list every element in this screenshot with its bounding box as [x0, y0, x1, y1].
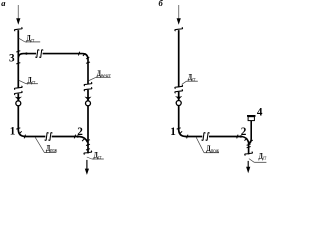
tick on node 1 corner curve (a) [19, 131, 22, 134]
break S mark bottom tail (b) [245, 152, 253, 156]
svg-text:3: 3 [9, 52, 15, 64]
outlet arrow (a) [85, 160, 89, 175]
junction dot node 2 (b) [240, 135, 242, 137]
outlet arrow (b) [246, 161, 250, 173]
tick below node 2 first (a) [86, 144, 90, 145]
flow arrowhead on right riser (a) [85, 97, 91, 101]
label Дпож (a) [35, 137, 57, 154]
svg-text:1: 1 [170, 126, 176, 138]
tick on bottom main after corner (b) [187, 135, 188, 139]
instrument circle on riser (b) [176, 101, 181, 106]
wire: right riser lower (a) [87, 90, 89, 154]
junction dot on top main (a) [25, 52, 27, 54]
tick on node 1 corner curve (b) [179, 131, 182, 134]
label Двент (a) [89, 68, 111, 81]
label Дст upper (b) [182, 72, 198, 85]
wire: riser upper (b) [178, 30, 180, 87]
wire: bottom main right part (a) [52, 137, 88, 143]
svg-text:4: 4 [257, 107, 263, 119]
svg-text:1: 1 [10, 126, 16, 138]
instrument circle on left riser (a) [16, 101, 21, 106]
tick below node 2 first (b) [247, 144, 251, 145]
wire: riser lower with node1 corner (b) [179, 92, 186, 137]
label Дст upper (a) [19, 32, 41, 43]
tick below node 2 second (a) [86, 149, 90, 150]
tick on right riser at node 2 (a) [86, 140, 90, 141]
wire: left riser upper (a) [17, 30, 19, 88]
wire: bottom main right part with node2 elbow (b) [209, 137, 249, 155]
supply arrow (b) [177, 5, 181, 25]
svg-text:2: 2 [241, 126, 247, 138]
instrument circle on right riser (a) [86, 101, 91, 106]
tick on node 2 elbow curve (a) [82, 139, 85, 142]
break S pair on riser (b) [175, 85, 183, 93]
break S mark (a inlet) [14, 27, 22, 31]
junction dot node 2 (a) [77, 135, 79, 137]
flow arrowhead on riser (b) [176, 96, 182, 100]
tick below node 3 [16, 63, 20, 64]
tick on node 2 elbow curve (b) [245, 138, 248, 141]
svg-text:а: а [1, 0, 6, 8]
tick on corner curve (top right) [83, 53, 86, 56]
tick above node 3 [16, 51, 20, 52]
break S pair on bottom main (b) [202, 133, 210, 141]
break S pair on top main (a) [36, 50, 44, 58]
wire: branch from node 3 to top main (a) [18, 54, 36, 58]
svg-text:2: 2 [77, 126, 83, 138]
tick on top main before corner [78, 52, 79, 56]
break S mark (b inlet) [175, 27, 183, 31]
supply arrow (a) [16, 5, 20, 25]
flow arrowhead on left riser (a) [15, 97, 21, 101]
wire: bottom main left part (a) [25, 136, 45, 138]
tick on bottom main after corner (a) [24, 135, 25, 139]
hose tap symbol 4 (b) [247, 115, 256, 144]
label Дсг (a) [87, 150, 104, 161]
tick on right riser below corner [86, 62, 90, 63]
tick on bottom main before node 2 (b) [237, 135, 238, 139]
break S mark bottom tail (a) [84, 151, 92, 155]
tick on bottom main before node 2 (a) [74, 135, 75, 139]
wire: bottom main left part (b) [185, 136, 202, 138]
tick on corner lower (top right) [86, 57, 89, 59]
wire: top main run (a) [43, 54, 88, 85]
tick on riser of tap 4 [249, 140, 252, 142]
tick above node 1 corner (a) [16, 128, 20, 129]
tick above node 1 corner (b) [177, 128, 181, 129]
label Дст lower-left (a) [19, 74, 38, 85]
wire: left riser lower with node1 corner (a) [18, 94, 25, 137]
break S pair on right riser (a) [84, 82, 92, 91]
label Дст bottom (b) [249, 150, 267, 162]
break S pair on bottom main (a) [45, 133, 52, 141]
tick below node 2 second (b) [247, 147, 251, 148]
break S pair on left riser (a) [14, 86, 22, 95]
label Дпож (b) [196, 137, 219, 154]
